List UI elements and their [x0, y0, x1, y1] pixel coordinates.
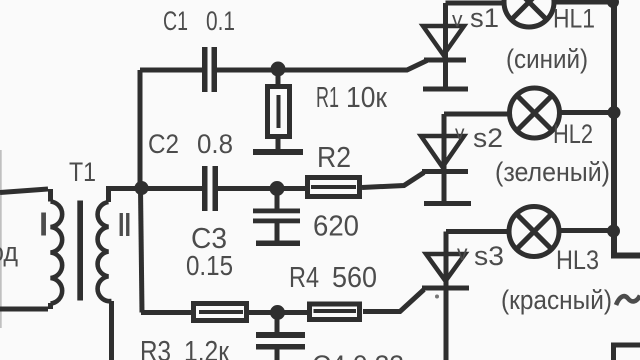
svg-text:1.2к: 1.2к [184, 336, 229, 360]
svg-text:R4: R4 [289, 262, 319, 294]
svg-text:v: v [457, 242, 468, 265]
svg-text:0.15: 0.15 [186, 250, 233, 281]
svg-text:R2: R2 [317, 142, 351, 174]
svg-text:(зеленый): (зеленый) [495, 157, 610, 187]
svg-text:(красный): (красный) [501, 285, 612, 315]
svg-text:II: II [118, 206, 131, 243]
svg-text:R3: R3 [140, 336, 171, 360]
svg-text:HL2: HL2 [553, 119, 593, 149]
svg-text:v: v [452, 9, 463, 32]
svg-text:0.8: 0.8 [197, 129, 233, 159]
svg-text:s3: s3 [474, 241, 504, 271]
svg-text:620: 620 [313, 211, 359, 243]
svg-text:HL3: HL3 [556, 245, 599, 275]
svg-text:C1: C1 [163, 6, 188, 36]
svg-text:(синий): (синий) [506, 44, 588, 74]
svg-text:R1: R1 [316, 82, 339, 114]
svg-text:од: од [0, 237, 18, 267]
svg-text:HL1: HL1 [553, 4, 595, 34]
svg-text:s1: s1 [470, 3, 499, 33]
svg-text:С4 0.33: С4 0.33 [312, 350, 404, 360]
svg-text:0.1: 0.1 [206, 6, 235, 36]
svg-text:s2: s2 [473, 123, 503, 153]
svg-text:v: v [455, 123, 465, 144]
svg-text:I: I [39, 206, 48, 243]
svg-text:10к: 10к [346, 82, 387, 114]
svg-text:C2: C2 [148, 129, 179, 159]
svg-text:Т1: Т1 [69, 157, 96, 187]
svg-text:560: 560 [332, 262, 377, 294]
